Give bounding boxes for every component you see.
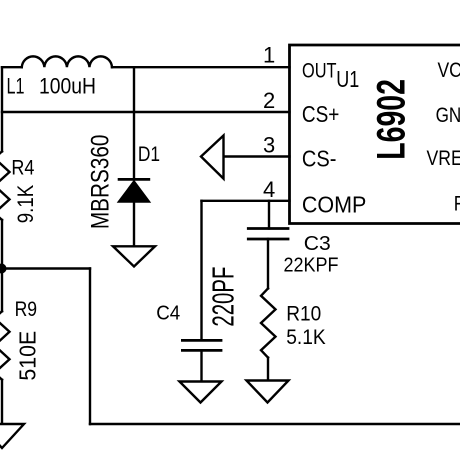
node junction dot xyxy=(0,264,7,274)
diode D1 triangle xyxy=(118,181,151,203)
IC U1 box xyxy=(290,45,460,224)
svg-text:R4: R4 xyxy=(11,157,34,180)
svg-text:3: 3 xyxy=(263,133,275,158)
ground below D1 xyxy=(113,246,155,266)
svg-text:VCC: VCC xyxy=(438,59,460,82)
wire FB net vertical xyxy=(89,269,91,425)
svg-text:220PF: 220PF xyxy=(206,267,241,327)
diode D1 cathode bar xyxy=(118,178,151,181)
capacitor C4 plates xyxy=(181,340,222,350)
svg-text:C3: C3 xyxy=(304,232,331,255)
resistor R9 xyxy=(0,311,10,380)
wire CS- pin3 xyxy=(224,155,290,157)
wire C3 to R10 xyxy=(267,239,269,288)
svg-text:L1: L1 xyxy=(7,73,25,98)
svg-text:2: 2 xyxy=(263,88,275,113)
wire left rail upper segment xyxy=(1,67,3,151)
wire COMP to C3 xyxy=(268,201,270,229)
svg-text:22KPF: 22KPF xyxy=(284,255,339,277)
svg-text:COMP: COMP xyxy=(302,191,367,217)
wire left rail lower segment xyxy=(1,380,3,424)
wire FB net bottom to right edge xyxy=(90,423,460,425)
svg-text:C4: C4 xyxy=(156,302,180,325)
svg-text:FB: FB xyxy=(454,193,460,216)
svg-text:9.1K: 9.1K xyxy=(13,185,38,224)
svg-text:4: 4 xyxy=(263,177,275,202)
svg-text:D1: D1 xyxy=(138,143,160,166)
ground bottom left xyxy=(0,424,24,448)
wire top rail L1 to OUT pin1 xyxy=(112,66,290,68)
svg-text:U1: U1 xyxy=(336,66,359,92)
ground below R10 xyxy=(247,381,289,403)
svg-text:L6902: L6902 xyxy=(370,79,414,160)
wire FB net horizontal from node xyxy=(2,267,90,269)
svg-text:5.1K: 5.1K xyxy=(286,325,326,349)
capacitor C3 plates xyxy=(247,229,290,240)
wire CS+ pin2 xyxy=(2,111,290,113)
svg-text:R9: R9 xyxy=(15,298,37,321)
svg-text:CS+: CS+ xyxy=(302,101,340,127)
svg-text:CS-: CS- xyxy=(302,146,337,172)
ground below C4 xyxy=(180,382,222,403)
wire left rail middle segment xyxy=(1,220,3,311)
wire C4 to ground xyxy=(200,351,202,382)
wire D1 branch lower xyxy=(133,202,135,246)
wire D1 branch upper xyxy=(133,67,135,179)
arrow CS- input xyxy=(201,136,224,179)
svg-text:100uH: 100uH xyxy=(39,74,96,99)
svg-text:OUT: OUT xyxy=(302,58,337,83)
resistor R10 xyxy=(261,288,276,357)
wire COMP pin4 xyxy=(202,200,290,202)
wire top rail left of L1 xyxy=(2,66,22,68)
wire COMP to C4 xyxy=(200,201,202,340)
svg-text:MBRS360: MBRS360 xyxy=(87,135,115,230)
wire R10 to ground xyxy=(267,358,269,381)
svg-text:R10: R10 xyxy=(286,301,321,325)
svg-text:510E: 510E xyxy=(15,331,41,381)
svg-text:GND: GND xyxy=(436,104,460,127)
resistor R4 xyxy=(0,151,10,220)
svg-text:1: 1 xyxy=(263,43,275,68)
svg-text:VREF: VREF xyxy=(427,147,460,170)
inductor L1 xyxy=(22,56,112,67)
